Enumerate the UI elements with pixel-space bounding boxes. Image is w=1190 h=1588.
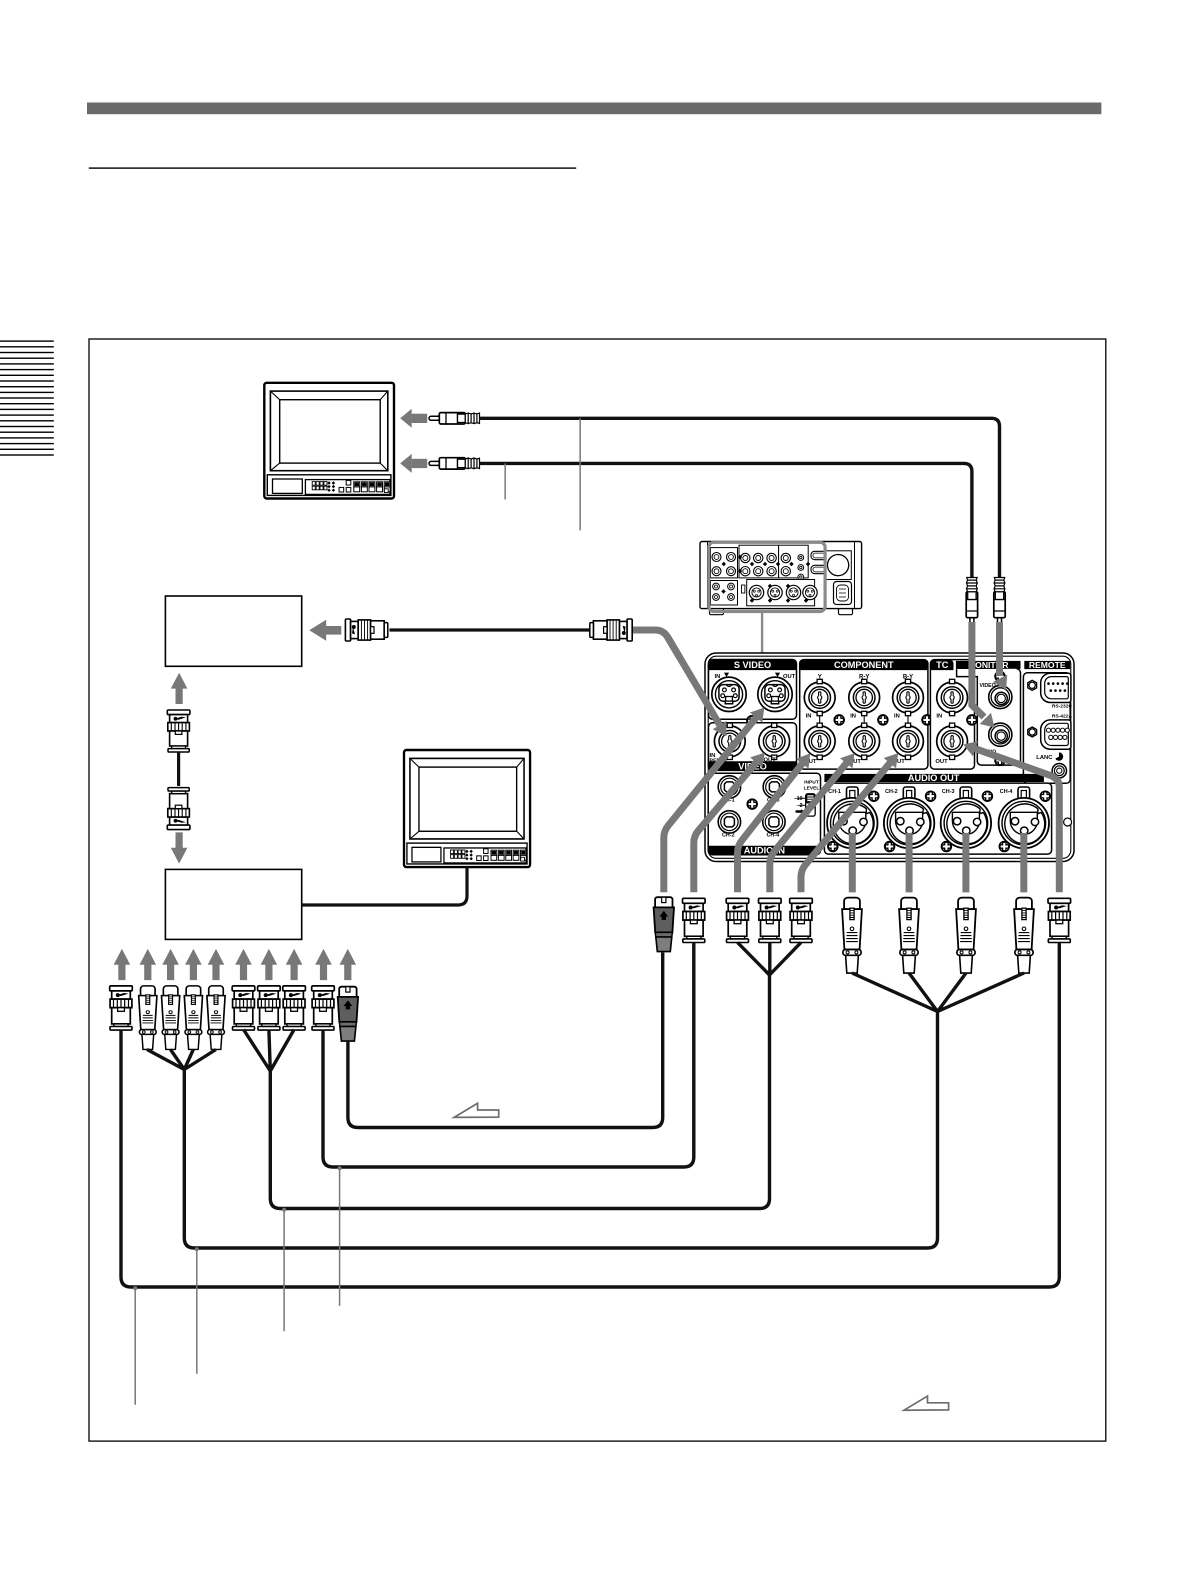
AUDIO IN CH-3 jack (763, 776, 785, 798)
VIDEO OUT BNC (759, 723, 790, 759)
gray cable: BNC plug to COMPONENT R-Y OUT (770, 763, 847, 893)
link line B-Y (907, 716, 909, 723)
svg-text:CH-4: CH-4 (767, 833, 780, 839)
S VIDEO section box (709, 660, 797, 720)
AUDIO IN label bar (708, 846, 820, 855)
BNC plug below panel x=1059.3 (1048, 898, 1071, 942)
video RCA cable monitor1 to panel (480, 418, 1000, 577)
gray up arrow x=170.6 (162, 949, 179, 980)
gray cable: BNC adapter cable to S VIDEO REF IN (over panel) (668, 637, 720, 725)
screw lower left (828, 842, 838, 852)
COMPONENT B-Y OUT BNC (893, 723, 924, 759)
screw below AUDIO jack (995, 755, 1005, 765)
U cable: TC BNC (outermost) (121, 942, 1059, 1287)
screw (878, 715, 888, 725)
screw upper right (926, 791, 936, 801)
AUDIO OUT CH-2 XLR connector (884, 798, 934, 848)
svg-text:IN: IN (850, 714, 856, 720)
gray cable: BNC plug to VIDEO OUT (694, 762, 757, 893)
AUDIO OUT CH-3 XLR connector (941, 798, 991, 848)
coax cable between BNC plugs (390, 628, 590, 631)
svg-text:IN: IN (894, 714, 900, 720)
figure frame (89, 339, 1106, 341)
svg-text:LANC: LANC (1036, 755, 1053, 761)
COMPONENT B-Y IN BNC (893, 679, 924, 715)
VIDEO BNC section box (709, 723, 797, 771)
screw (834, 715, 844, 725)
top gray title bar (87, 103, 1101, 115)
callout leader (audio cable) (504, 463, 506, 499)
AUDIO IN section box (708, 773, 820, 855)
gray arrow into monitor1 audio in (412, 459, 428, 468)
RCA plug to monitor1 video (429, 413, 480, 424)
S VIDEO header bar (709, 660, 797, 671)
svg-text:RS-422A: RS-422A (1052, 713, 1073, 719)
screw above VIDEO jack (995, 671, 1005, 681)
S-video plug below panel (654, 897, 674, 951)
tape direction icon (inner) (454, 1103, 499, 1117)
RCA plug into MONITOR VIDEO jack (994, 578, 1005, 629)
U cable: S-video (innermost) (348, 953, 663, 1128)
AUDIO OUT CH-3 XLR latch tab (960, 787, 972, 799)
equipment box 1 (unlabeled device) (165, 596, 301, 666)
screw (747, 799, 757, 809)
BNC adapter upper (pointing up) (167, 710, 190, 752)
equipment box 2 (unlabeled device) (165, 869, 301, 939)
gray highlight frame on VTR (709, 542, 825, 611)
gray up arrow x=294.1 (286, 949, 303, 980)
svg-text:IN: IN (806, 714, 812, 720)
gray arrow into box1 (326, 626, 341, 635)
connection panel outline (705, 653, 1074, 862)
U cable: audio 4xXLR (852, 973, 1024, 1012)
gray stubs XLR jacks to plugs (849, 833, 856, 892)
RCA plug to monitor1 audio (429, 458, 480, 469)
callout leader (video cable) (579, 418, 581, 530)
AUDIO OUT CH-2 XLR latch tab (903, 787, 915, 799)
audio RCA cable monitor1 to panel (480, 463, 972, 577)
gray up arrow x=347.8 (340, 949, 357, 980)
TC header bar (930, 660, 953, 671)
RS-232C D-sub connector (1028, 673, 1071, 702)
AUDIO IN CH-2 jack (718, 811, 740, 833)
gray cable: BNC plug to COMPONENT Y OUT (738, 763, 803, 893)
screw (922, 715, 932, 725)
XLR plug below panel x=1024.0 (1014, 898, 1034, 974)
AUDIO IN CH-1 jack (718, 776, 740, 798)
svg-text:CH-2: CH-2 (722, 833, 735, 839)
BNC plug below panel x=769.8 (759, 898, 782, 942)
BNC plug below panel x=693.8 (683, 898, 706, 942)
svg-text:IN: IN (936, 714, 942, 720)
gray cable from BNC toward S VIDEO REF IN (tail before panel) (633, 630, 680, 658)
gray cable: BNC plug to TC OUT (974, 748, 1059, 892)
svg-text:TC: TC (936, 660, 949, 670)
adapter coax link (177, 752, 180, 786)
section underline (89, 167, 576, 168)
XLR plug left x=170.6 (161, 986, 179, 1050)
gray up arrow x=121.9 (114, 949, 131, 980)
TC OUT BNC (937, 723, 968, 759)
S-video plug left (338, 987, 358, 1041)
COMPONENT header bar (800, 660, 928, 671)
svg-text:REMOTE: REMOTE (1029, 660, 1066, 670)
gray up arrow box1 to adapter (171, 673, 188, 704)
LANC jack (1052, 764, 1066, 778)
VIDEO label bar (709, 761, 797, 770)
RS-422A D-sub connector (1028, 720, 1071, 749)
gray up arrow x=147.8 (140, 949, 157, 980)
TC IN BNC (937, 679, 968, 715)
svg-text:CH-1: CH-1 (828, 789, 841, 795)
LANC symbol (1055, 752, 1063, 760)
screw lower left (885, 842, 895, 852)
gray down arrow adapter to box2 (171, 832, 188, 863)
XLR plug below panel x=852.0 (842, 898, 862, 974)
MONITOR header bar (956, 661, 1021, 669)
TC section box (930, 660, 974, 770)
svg-text:COMPONENT: COMPONENT (834, 660, 894, 670)
left margin stripe block (0, 340, 54, 341)
BNC plug left x=243.5 (232, 986, 255, 1030)
RCA plug into MONITOR AUDIO jack (966, 578, 977, 629)
XLR plug left x=193.4 (184, 986, 202, 1050)
S VIDEO IN connector (712, 677, 746, 711)
callout leader x=339.6 (339, 1168, 341, 1306)
COMPONENT R-Y IN BNC (849, 679, 880, 715)
COMPONENT R-Y OUT BNC (849, 723, 880, 759)
svg-text:OUT: OUT (783, 674, 796, 680)
screw left (967, 715, 977, 725)
monitor 1 (video monitor, top) (264, 383, 394, 499)
gray lead RCA audio plug to MONITOR AUDIO jack (972, 622, 984, 717)
gray up arrow x=216.0 (208, 949, 225, 980)
screw lower left (941, 842, 951, 852)
BNC plug (left, to box2 group) (110, 986, 133, 1030)
U cable: video BNC (323, 942, 694, 1167)
AUDIO OUT section box (824, 783, 1051, 854)
gray leader VTR to panel (761, 612, 763, 654)
VTR rear panel (small) (700, 542, 862, 615)
BNC cable plug (left, into arrow) (345, 619, 387, 641)
S VIDEO OUT connector (758, 677, 792, 711)
svg-text:INPUT: INPUT (804, 779, 819, 785)
svg-text:S VIDEO: S VIDEO (734, 660, 771, 670)
MONITOR AUDIO RCA jack (989, 723, 1012, 746)
AUDIO OUT CH-4 XLR connector (999, 798, 1049, 848)
screw lower left (999, 842, 1009, 852)
svg-text:CH-2: CH-2 (885, 789, 898, 795)
MONITOR section box (957, 669, 1021, 769)
svg-text:−10: −10 (794, 796, 803, 802)
BNC plug below panel x=737.5 (726, 898, 749, 942)
gray cable: BNC plug to COMPONENT B-Y OUT (801, 762, 891, 892)
AUDIO OUT CH-4 XLR latch tab (1018, 787, 1030, 799)
gray arrow into monitor1 video in (412, 414, 428, 423)
gray cable: S-video plug to S VIDEO OUT (664, 717, 757, 893)
XLR plug left x=147.8 (139, 986, 157, 1050)
svg-text:CH-3: CH-3 (942, 789, 955, 795)
BNC plug below panel x=801.0 (790, 898, 813, 942)
XLR plug below panel x=966.0 (956, 898, 976, 974)
U cable: component 3xBNC (738, 942, 802, 975)
REMOTE section box (1023, 673, 1070, 784)
COMPONENT section box (800, 660, 928, 770)
AUDIO OUT CH-1 XLR latch tab (847, 787, 859, 799)
svg-text:OUT: OUT (935, 759, 948, 765)
AUDIO OUT CH-1 XLR connector (827, 798, 877, 848)
BNC cable plug (right) (590, 619, 632, 641)
svg-text:RS-232C: RS-232C (1052, 704, 1073, 710)
screw between S VIDEO boxes (747, 716, 757, 726)
svg-text:AUDIO OUT: AUDIO OUT (908, 773, 960, 783)
svg-text:IN: IN (715, 674, 721, 680)
AUDIO IN CH-4 jack (763, 811, 785, 833)
XLR plug below panel x=909.0 (899, 898, 919, 974)
link line Y (819, 716, 821, 723)
callout leader x=196.8 (196, 1249, 198, 1374)
XLR plug left x=216.0 (207, 986, 225, 1050)
gray up arrow x=193.4 (185, 949, 202, 980)
screw upper right (982, 791, 992, 801)
gray up arrow x=323.5 (315, 949, 332, 980)
BNC plug left x=323.0 (312, 986, 335, 1030)
panel mounting hole (1064, 818, 1072, 826)
INPUT LEVEL slider (806, 794, 816, 816)
gray up arrow x=268.9 (261, 949, 278, 980)
screw upper right (1040, 791, 1050, 801)
COMPONENT Y IN BNC (804, 679, 835, 715)
tape direction icon (bottom right) (904, 1396, 949, 1410)
MONITOR VIDEO RCA jack (989, 685, 1012, 708)
BNC plug left x=268.9 (258, 986, 281, 1030)
VIDEO REF IN BNC (714, 723, 745, 759)
REMOTE header bar (1024, 661, 1070, 669)
monitor 2 (video monitor, middle) (404, 750, 530, 867)
cable monitor2 to box2 (302, 867, 467, 905)
BNC adapter lower (pointing down) (167, 788, 190, 830)
svg-text:CH-4: CH-4 (1000, 789, 1013, 795)
gray up arrow x=243.5 (235, 949, 252, 980)
svg-text:LEVEL: LEVEL (804, 785, 820, 791)
callout leader x=135.2 (134, 1288, 136, 1405)
AUDIO OUT header bar (824, 774, 1044, 782)
svg-text:−2: −2 (797, 803, 803, 809)
screw upper right (869, 791, 879, 801)
callout leader x=284.1 (283, 1209, 285, 1331)
gray lead RCA video plug to MONITOR VIDEO jack (996, 622, 1003, 676)
link line R-Y (863, 716, 865, 723)
BNC plug left x=294.1 (283, 986, 306, 1030)
COMPONENT Y OUT BNC (804, 723, 835, 759)
